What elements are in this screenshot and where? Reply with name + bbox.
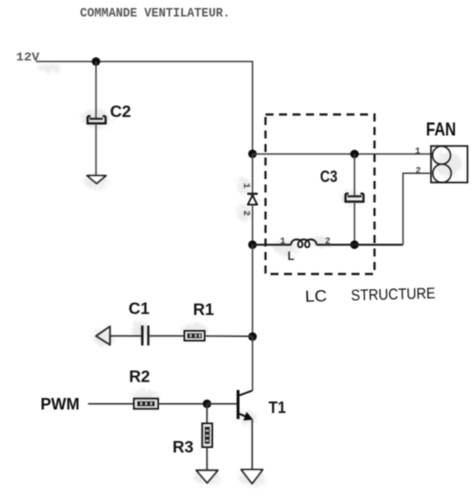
wire diode top lead [252,154,254,194]
wire main vertical mid [252,245,254,337]
svg-text:1: 1 [415,147,421,157]
capacitor C2 [88,103,131,123]
transistor T1 [237,337,286,421]
ground under R3 [196,470,218,483]
wire main vertical from rail [252,62,254,154]
wire C2 bottom [95,124,97,175]
wire R3 to ground [206,447,208,470]
wire emitter down [251,419,253,469]
svg-text:2: 2 [241,211,251,216]
svg-text:R2: R2 [129,368,150,386]
node at base/R3 [203,400,212,409]
svg-text:COMMANDE VENTILATEUR.: COMMANDE VENTILATEUR. [80,7,230,21]
connector FAN [426,120,468,183]
svg-text:12V: 12V [16,52,40,65]
wire C1 to R1 [149,335,185,337]
svg-text:1: 1 [280,237,286,247]
ground under emitter [241,470,263,484]
wire top row to FAN pin 1 [253,153,432,155]
node junction on 12V rail [92,57,101,66]
capacitor C3 [320,168,364,202]
node at R1 row [248,332,257,341]
resistor R1 [185,301,215,341]
svg-text:2: 2 [416,166,421,176]
svg-text:T1: T1 [269,399,287,417]
wire diode bottom lead [252,205,254,245]
svg-text:C2: C2 [110,103,131,121]
wire C2 top [95,62,97,119]
diode D1 [241,183,258,216]
wire R2 to base node [158,403,207,405]
wire R1 to node [205,335,253,337]
node at diode top [248,150,257,159]
input port triangle [96,326,110,345]
svg-text:C1: C1 [129,300,150,318]
wire input to C1 [110,335,141,337]
svg-text:L: L [288,251,295,263]
node at C3 top [350,150,359,159]
svg-text:PWM: PWM [41,396,80,414]
svg-text:STRUCTURE: STRUCTURE [351,285,436,304]
wire PWM to R2 [88,403,134,405]
wire node to R3 [206,404,208,424]
resistor R3 [173,424,213,457]
wire C3 bottom [354,202,356,245]
svg-text:1: 1 [241,183,251,189]
resistor R2 [129,368,158,409]
svg-text:R3: R3 [173,439,194,457]
svg-text:R1: R1 [193,301,214,319]
node at C3 bottom [350,240,359,249]
inductor L [288,239,317,263]
svg-text:LC: LC [305,288,327,306]
wire up to FAN pin 2 [403,173,431,244]
svg-text:FAN: FAN [426,120,456,140]
dashed box LC structure [266,115,375,275]
wire base [207,403,237,405]
wire 12V top rail [36,61,253,63]
ground under C2 [87,176,106,184]
wire C3 top [354,154,356,196]
wire bottom row right of coil [317,244,404,246]
svg-text:C3: C3 [320,168,338,186]
node at diode bottom [248,240,257,249]
wire bottom row left of coil [253,244,292,246]
capacitor C1 [129,300,150,346]
